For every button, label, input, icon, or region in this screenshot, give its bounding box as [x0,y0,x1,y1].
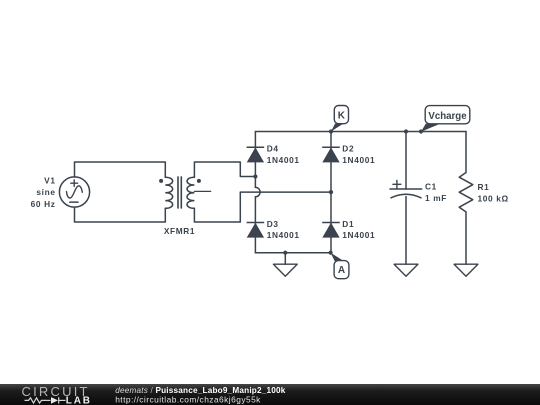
wire ground stub bridge [284,253,286,265]
wire R1 branch upper [465,132,467,173]
wire XFMR1 secondary top to bridge node [194,162,255,177]
svg-text:1N4001: 1N4001 [342,155,375,165]
svg-text:XFMR1: XFMR1 [164,226,195,236]
svg-text:1N4001: 1N4001 [342,230,375,240]
svg-text:V1: V1 [44,176,55,186]
primary winding [165,177,172,208]
diode D2 [322,147,340,162]
junction node dots [329,129,333,133]
wire C1 branch upper [405,132,407,190]
svg-text:D4: D4 [267,144,279,154]
svg-text:A: A [338,265,345,276]
label D2 1N4001 [342,144,375,165]
primary polarity dot [159,179,163,183]
wire bottom rail [255,252,331,254]
svg-text:K: K [338,111,346,122]
wire V1 bottom to XFMR1 primary bottom [75,207,166,222]
label D4 1N4001 [267,144,300,165]
svg-text:sine: sine [36,187,55,197]
wire right bridge column [330,132,332,253]
node K flag [331,106,349,132]
ground (C1) [394,264,418,276]
transformer XFMR1 [165,177,210,208]
node A flag [331,253,349,279]
svg-text:D2: D2 [342,144,354,154]
svg-text:R1: R1 [478,182,490,192]
svg-text:Vcharge: Vcharge [428,111,467,122]
label R1 100 kOhm [478,182,509,204]
wire bridge middle horizontal [240,191,331,193]
wire XFMR1 secondary bottom to bridge middle [194,192,240,222]
svg-text:100 kΩ: 100 kΩ [478,194,509,204]
label D3 1N4001 [267,219,300,240]
svg-text:60 Hz: 60 Hz [31,199,56,209]
diode D3 [247,223,265,238]
wire hop over middle wire [255,187,260,196]
wire V1 top to XFMR1 primary top [75,162,166,177]
svg-text:C1: C1 [425,181,437,191]
secondary winding [187,177,194,208]
wire left bridge column lower [254,197,256,253]
label C1 1 mF [425,181,447,203]
resistor R1 [459,173,473,212]
secondary polarity dot [197,179,201,183]
svg-text:D3: D3 [267,219,279,229]
svg-text:LAB: LAB [66,396,92,405]
diode D4 [247,147,265,162]
capacitor C1 [390,180,422,197]
svg-text:http://circuitlab.com/chza6kj6: http://circuitlab.com/chza6kj6gy55k [115,395,261,405]
wire top rail K to Vcharge to R1 [255,131,466,133]
footer bar [0,384,540,405]
secondary center tap stub [194,190,210,192]
core lines [178,177,181,208]
svg-text:1 mF: 1 mF [425,193,447,203]
CircuitLab logo circuit line with resistor and diode [25,397,66,403]
wire R1 branch lower [465,212,467,264]
diode D1 [322,223,340,238]
node Vcharge flag [421,106,470,132]
label D1 1N4001 [342,219,375,240]
label V1 sine 60 Hz [31,176,56,209]
wire left bridge column upper [254,132,256,188]
svg-text:1N4001: 1N4001 [267,155,300,165]
svg-text:1N4001: 1N4001 [267,230,300,240]
wire C1 branch lower [405,197,407,265]
svg-text:D1: D1 [342,219,354,229]
ground (bridge) [273,264,297,276]
ground (R1) [454,264,478,276]
voltage source V1 [59,177,89,207]
